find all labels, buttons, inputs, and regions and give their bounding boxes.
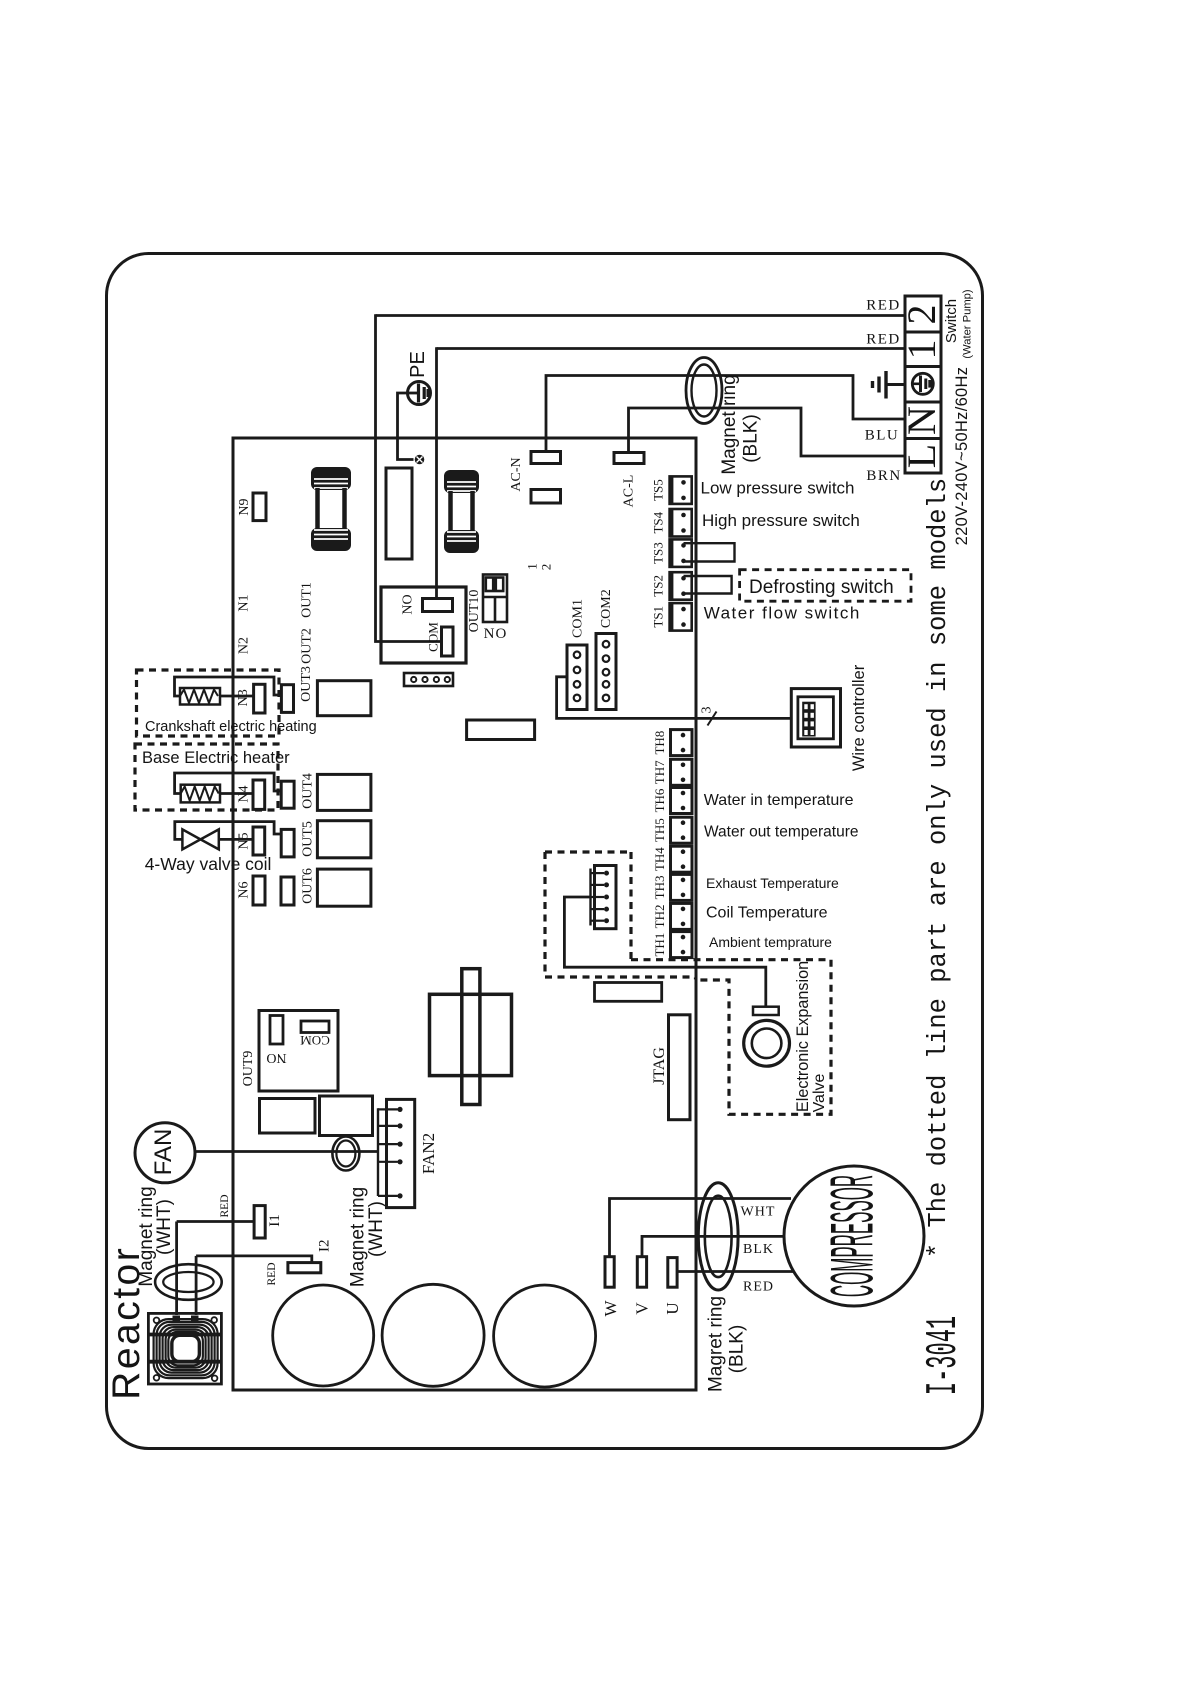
svg-text:N6: N6 — [237, 881, 252, 898]
svg-text:OUT10: OUT10 — [467, 590, 482, 633]
svg-text:Coil Temperature: Coil Temperature — [706, 905, 828, 922]
svg-text:Switch: Switch — [943, 299, 960, 343]
svg-text:Magnet ring: Magnet ring — [719, 374, 740, 474]
svg-text:TH8: TH8 — [652, 731, 667, 755]
svg-text:OUT9: OUT9 — [241, 1051, 256, 1087]
svg-text:RED: RED — [266, 1263, 278, 1286]
svg-text:NO: NO — [484, 626, 508, 642]
svg-text:TS2: TS2 — [651, 575, 666, 597]
svg-text:BRN: BRN — [866, 468, 901, 484]
svg-text:BLK: BLK — [743, 1242, 774, 1257]
svg-text:(WHT): (WHT) — [366, 1201, 387, 1257]
svg-text:(BLK): (BLK) — [727, 1325, 748, 1374]
svg-text:Exhaust Temperature: Exhaust Temperature — [706, 875, 839, 891]
svg-text:OUT5: OUT5 — [301, 821, 316, 857]
svg-text:TS3: TS3 — [651, 542, 666, 564]
svg-text:2: 2 — [539, 564, 554, 571]
svg-text:3: 3 — [700, 707, 715, 714]
svg-text:N1: N1 — [237, 594, 252, 611]
svg-text:Reactor: Reactor — [105, 1246, 148, 1400]
svg-text:TH7: TH7 — [652, 760, 667, 784]
svg-text:TS1: TS1 — [651, 606, 666, 628]
svg-text:RED: RED — [866, 298, 901, 314]
svg-text:COM: COM — [300, 1033, 330, 1048]
svg-text:RED: RED — [219, 1195, 231, 1218]
svg-text:U: U — [663, 1302, 682, 1314]
svg-text:N5: N5 — [237, 832, 252, 849]
svg-text:NO: NO — [266, 1050, 286, 1065]
svg-text:OUT6: OUT6 — [301, 868, 316, 904]
svg-text:Water flow switch: Water flow switch — [704, 604, 861, 623]
svg-text:I-3041: I-3041 — [919, 1316, 968, 1395]
svg-text:WHT: WHT — [741, 1205, 776, 1220]
svg-text:RED: RED — [866, 332, 901, 348]
svg-text:COM2: COM2 — [599, 589, 614, 628]
svg-text:Magret ring: Magret ring — [706, 1296, 727, 1392]
svg-text:FAN2: FAN2 — [419, 1133, 438, 1174]
svg-text:(WHT): (WHT) — [154, 1199, 175, 1255]
svg-text:Water in temperature: Water in temperature — [704, 792, 854, 809]
svg-text:W: W — [601, 1300, 620, 1317]
svg-text:OUT2: OUT2 — [299, 628, 314, 664]
svg-text:TH3: TH3 — [652, 875, 667, 899]
svg-text:TH5: TH5 — [652, 818, 667, 842]
svg-text:JTAG: JTAG — [651, 1047, 668, 1085]
svg-text:1: 1 — [899, 340, 944, 360]
svg-text:COM: COM — [426, 622, 441, 652]
svg-text:I2: I2 — [317, 1239, 333, 1252]
svg-text:2: 2 — [899, 305, 944, 325]
svg-text:NO: NO — [401, 594, 416, 614]
svg-text:TH2: TH2 — [652, 904, 667, 928]
svg-text:(BLK): (BLK) — [741, 414, 762, 463]
svg-text:TH1: TH1 — [652, 933, 667, 957]
svg-text:OUT3: OUT3 — [299, 666, 314, 702]
svg-text:AC-L: AC-L — [622, 475, 637, 508]
svg-text:Ambient temprature: Ambient temprature — [709, 934, 832, 950]
svg-text:Base Electric heater: Base Electric heater — [142, 749, 290, 767]
svg-text:N: N — [899, 406, 944, 435]
svg-text:RED: RED — [743, 1280, 774, 1295]
svg-text:OUT4: OUT4 — [301, 773, 316, 809]
svg-text:TS4: TS4 — [651, 511, 666, 533]
svg-text:1: 1 — [525, 563, 540, 570]
svg-text:AC-N: AC-N — [509, 457, 524, 491]
svg-text:Crankshaft electric heating: Crankshaft electric heating — [145, 719, 317, 735]
svg-text:L: L — [899, 444, 944, 468]
svg-text:TS5: TS5 — [651, 479, 666, 501]
svg-text:Low pressure switch: Low pressure switch — [701, 479, 855, 498]
svg-text:Water out temperature: Water out temperature — [704, 824, 859, 841]
svg-text:4-Way valve coil: 4-Way valve coil — [145, 854, 272, 874]
svg-text:COMPRESSOR: COMPRESSOR — [820, 1175, 887, 1297]
svg-text:FAN: FAN — [150, 1129, 177, 1176]
svg-text:COM1: COM1 — [570, 599, 585, 638]
svg-text:N9: N9 — [237, 498, 252, 515]
svg-text:BLU: BLU — [865, 428, 900, 444]
svg-text:TH6: TH6 — [652, 788, 667, 812]
svg-text:N2: N2 — [236, 637, 251, 654]
svg-text:* The dotted line part are onl: * The dotted line part are only used in … — [924, 478, 953, 1258]
svg-text:V: V — [633, 1302, 652, 1315]
svg-text:N3: N3 — [236, 689, 251, 706]
svg-text:Wire controller: Wire controller — [850, 664, 868, 771]
svg-text:Defrosting switch: Defrosting switch — [749, 577, 894, 598]
svg-text:(Water Pump): (Water Pump) — [962, 289, 974, 358]
svg-text:Valve: Valve — [811, 1073, 828, 1112]
svg-text:OUT1: OUT1 — [299, 582, 314, 618]
svg-text:High pressure switch: High pressure switch — [702, 511, 860, 530]
svg-text:TH4: TH4 — [652, 847, 667, 871]
svg-text:220V-240V~50Hz/60Hz: 220V-240V~50Hz/60Hz — [953, 367, 971, 546]
svg-text:Electronic Expansion: Electronic Expansion — [794, 961, 812, 1112]
svg-text:I1: I1 — [267, 1214, 283, 1227]
svg-text:PE: PE — [407, 351, 429, 378]
